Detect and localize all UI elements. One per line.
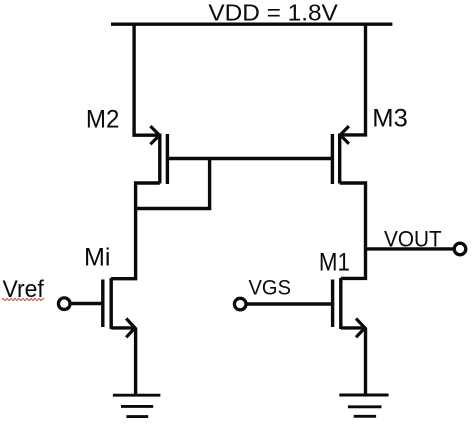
- svg-text:M2: M2: [86, 105, 120, 133]
- svg-text:VGS: VGS: [249, 276, 292, 300]
- svg-text:VOUT: VOUT: [384, 226, 442, 251]
- svg-text:VDD = 1.8V: VDD = 1.8V: [208, 0, 338, 25]
- svg-text:M3: M3: [372, 105, 408, 133]
- svg-text:M1: M1: [319, 248, 350, 276]
- svg-text:Mi: Mi: [84, 243, 111, 271]
